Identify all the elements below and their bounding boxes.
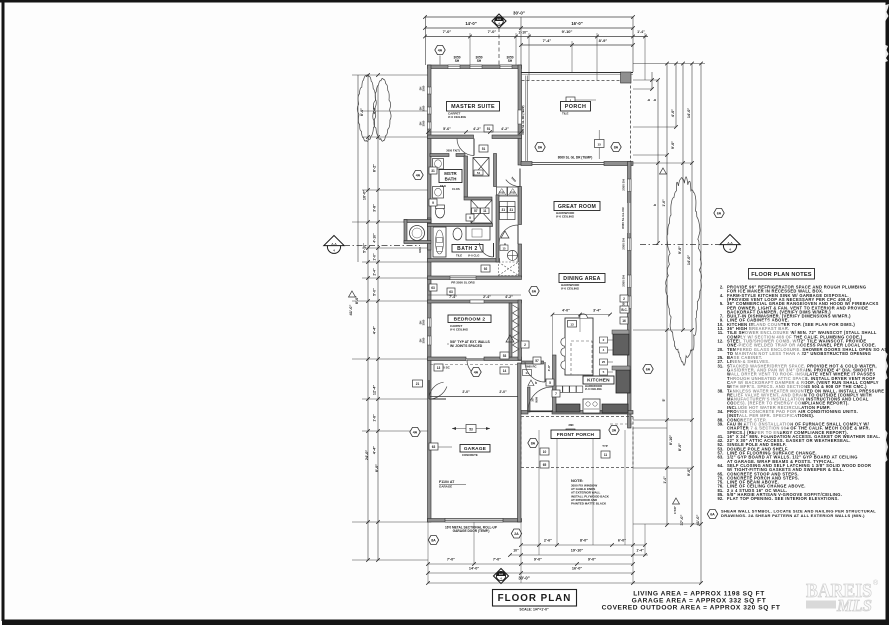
svg-text:PR 3050 SL DRS: PR 3050 SL DRS	[451, 281, 474, 285]
svg-text:30'-0": 30'-0"	[518, 576, 529, 581]
svg-text:9'-0 CEILING: 9'-0 CEILING	[585, 387, 602, 391]
svg-text:PAINTED MATTE BLACK: PAINTED MATTE BLACK	[571, 502, 607, 506]
svg-text:5'-10": 5'-10"	[363, 243, 367, 253]
svg-text:51: 51	[487, 127, 491, 131]
svg-text:A-A: A-A	[727, 241, 733, 245]
svg-text:SH: SH	[419, 87, 423, 91]
svg-text:7'-0": 7'-0"	[447, 558, 455, 562]
svg-text:FLOOR PLAN NOTES: FLOOR PLAN NOTES	[751, 272, 811, 278]
svg-text:7'-0": 7'-0"	[488, 29, 497, 34]
svg-text:8060 SL GL DR (TEMP): 8060 SL GL DR (TEMP)	[521, 105, 525, 134]
svg-text:2'-4": 2'-4"	[373, 268, 377, 276]
svg-text:63.: 63.	[718, 455, 724, 460]
svg-text:®: ®	[873, 579, 879, 587]
svg-text:13: 13	[437, 366, 441, 370]
svg-text:7'-4": 7'-4"	[543, 38, 552, 43]
svg-text:b: b	[647, 99, 651, 101]
svg-text:31.: 31.	[718, 363, 724, 368]
svg-text:TILE: TILE	[562, 112, 569, 116]
svg-text:31: 31	[501, 208, 505, 212]
svg-text:1'-6": 1'-6"	[662, 199, 666, 207]
svg-text:W/ JOINTS SPACED: W/ JOINTS SPACED	[450, 344, 483, 348]
svg-text:TILE: TILE	[440, 184, 446, 188]
svg-text:14'-0": 14'-0"	[687, 255, 691, 266]
svg-text:1'-4": 1'-4"	[663, 476, 667, 484]
svg-text:10": 10"	[513, 549, 519, 553]
svg-text:11: 11	[604, 453, 608, 457]
svg-text:7'-0": 7'-0"	[493, 558, 501, 562]
svg-text:b: b	[535, 381, 537, 385]
svg-text:SH: SH	[419, 339, 423, 343]
svg-text:SH: SH	[477, 59, 482, 63]
svg-text:5': 5'	[662, 398, 666, 401]
svg-text:6A: 6A	[532, 290, 537, 294]
svg-text:65: 65	[543, 463, 547, 467]
svg-text:14'-0": 14'-0"	[469, 567, 480, 571]
svg-text:GREAT ROOM: GREAT ROOM	[558, 204, 596, 210]
svg-text:8'-2": 8'-2"	[373, 164, 377, 172]
svg-text:8A: 8A	[538, 146, 543, 150]
svg-text:3A: 3A	[612, 429, 617, 433]
svg-text:16'-0": 16'-0"	[572, 567, 583, 571]
svg-text:1616: 1616	[418, 247, 422, 253]
svg-text:10: 10	[543, 450, 547, 454]
svg-text:1'-10": 1'-10"	[518, 31, 528, 35]
svg-text:92.: 92.	[718, 496, 724, 501]
svg-text:GARAGE: GARAGE	[464, 446, 486, 451]
svg-text:3'-8": 3'-8"	[547, 364, 551, 371]
svg-text:63: 63	[449, 290, 453, 294]
svg-text:4'-10": 4'-10"	[373, 233, 377, 243]
svg-text:11.: 11.	[718, 330, 724, 335]
svg-text:GARAGE: GARAGE	[439, 485, 452, 489]
svg-text:SH: SH	[419, 107, 423, 111]
svg-text:1'-4": 1'-4"	[637, 30, 645, 34]
svg-text:4A: 4A	[416, 174, 421, 178]
svg-text:34.: 34.	[718, 409, 724, 414]
svg-text:1'-0": 1'-0"	[373, 253, 377, 261]
svg-text:8A: 8A	[431, 539, 436, 543]
svg-text:B.C.: B.C.	[621, 308, 627, 312]
svg-text:FLAT TOP OPENING. SEE INTERIOR: FLAT TOP OPENING. SEE INTERIOR ELEVATION…	[727, 496, 839, 501]
svg-text:TILE: TILE	[456, 254, 462, 258]
svg-text:8060 SL GL DR (TEMP): 8060 SL GL DR (TEMP)	[558, 156, 593, 160]
svg-text:8'-0": 8'-0"	[678, 443, 682, 451]
svg-text:8A: 8A	[614, 146, 619, 150]
svg-text:3050 SH: 3050 SH	[622, 238, 626, 250]
svg-text:8A: 8A	[531, 442, 536, 446]
svg-text:2660 RC: 2660 RC	[525, 364, 536, 368]
svg-text:MASTER SUITE: MASTER SUITE	[451, 104, 495, 110]
svg-text:2.: 2.	[720, 285, 724, 290]
svg-text:4'-4": 4'-4"	[373, 446, 377, 454]
svg-text:14'-0": 14'-0"	[465, 21, 476, 26]
svg-text:3050 SH: 3050 SH	[622, 179, 626, 191]
svg-text:3'-4": 3'-4"	[593, 309, 601, 313]
svg-text:9'-10": 9'-10"	[562, 29, 573, 34]
svg-text:5: 5	[549, 381, 551, 385]
svg-text:b: b	[653, 204, 657, 206]
svg-text:BEDROOM 2: BEDROOM 2	[454, 316, 486, 322]
svg-text:8060 SL GL DR: 8060 SL GL DR	[621, 206, 625, 228]
svg-text:5.: 5.	[720, 301, 724, 306]
svg-text:10'-0": 10'-0"	[363, 190, 367, 201]
svg-text:8'-0": 8'-0"	[580, 539, 588, 543]
svg-text:16'-0": 16'-0"	[571, 21, 582, 26]
svg-text:9: 9	[469, 216, 471, 220]
svg-text:4.: 4.	[720, 293, 724, 298]
svg-text:4A: 4A	[438, 49, 443, 53]
svg-text:8'-0": 8'-0"	[375, 464, 379, 472]
svg-text:FRONT PORCH: FRONT PORCH	[557, 432, 595, 438]
svg-text:9: 9	[432, 201, 434, 205]
svg-text:TYP: TYP	[602, 444, 608, 448]
svg-text:SCALE: 1/4"=1'-0": SCALE: 1/4"=1'-0"	[519, 608, 549, 612]
svg-text:13: 13	[570, 323, 574, 327]
svg-text:15: 15	[502, 246, 506, 250]
svg-text:1'-8": 1'-8"	[373, 414, 377, 422]
svg-text:54: 54	[477, 171, 481, 175]
svg-text:3 5/8": 3 5/8"	[673, 505, 677, 514]
svg-text:SH: SH	[419, 321, 423, 325]
svg-text:12'-4": 12'-4"	[373, 385, 377, 396]
svg-text:6'-0": 6'-0"	[618, 539, 626, 543]
svg-text:20.: 20.	[718, 347, 724, 352]
svg-text:DRAWINGS. 2A SHEAR PATTERN AT: DRAWINGS. 2A SHEAR PATTERN AT ALL EXTERI…	[721, 513, 865, 518]
svg-text:41'-0": 41'-0"	[348, 304, 353, 315]
svg-text:NOTE:: NOTE:	[571, 478, 583, 483]
svg-text:7'-0": 7'-0"	[443, 29, 452, 34]
svg-text:BATH 2: BATH 2	[457, 246, 478, 252]
svg-text:BATH: BATH	[445, 177, 457, 182]
svg-text:8'-10": 8'-10"	[669, 435, 673, 446]
svg-text:DINING AREA: DINING AREA	[563, 276, 600, 282]
svg-text:2: 2	[524, 343, 526, 347]
svg-text:63: 63	[432, 445, 436, 449]
svg-text:N-R: N-R	[497, 19, 501, 21]
svg-text:2'-4": 2'-4"	[483, 295, 491, 299]
svg-text:9'-0": 9'-0"	[687, 468, 691, 476]
svg-text:41'-0": 41'-0"	[695, 514, 700, 525]
svg-text:2: 2	[623, 297, 625, 301]
svg-text:2'-0": 2'-0"	[462, 390, 470, 394]
svg-text:PORCH: PORCH	[565, 104, 586, 110]
svg-text:21: 21	[416, 382, 420, 386]
svg-text:4'-0": 4'-0"	[671, 109, 675, 117]
svg-text:CONCRETE: CONCRETE	[462, 453, 478, 457]
svg-text:3050 FX(T): 3050 FX(T)	[446, 149, 460, 153]
svg-text:SH: SH	[508, 59, 513, 63]
svg-text:4A: 4A	[413, 431, 418, 435]
svg-text:2030: 2030	[510, 192, 516, 195]
svg-text:GARAGE DOOR (TEMP.): GARAGE DOOR (TEMP.)	[453, 529, 490, 533]
svg-text:30'-0": 30'-0"	[513, 11, 525, 16]
svg-text:9'-0": 9'-0"	[671, 141, 675, 149]
svg-text:16: 16	[622, 319, 626, 323]
svg-text:5'-0": 5'-0"	[373, 288, 377, 296]
svg-text:57: 57	[474, 209, 478, 213]
svg-text:9'-0 CEILING: 9'-0 CEILING	[450, 328, 469, 332]
svg-text:14: 14	[503, 369, 507, 373]
svg-text:b: b	[653, 99, 657, 101]
svg-text:6A: 6A	[646, 368, 651, 372]
svg-text:7'-4": 7'-4"	[449, 295, 457, 299]
svg-text:GARAGE AREA = APPROX 332 SQ FT: GARAGE AREA = APPROX 332 SQ FT	[632, 598, 767, 605]
svg-text:5'-6": 5'-6"	[443, 127, 451, 131]
svg-text:64.: 64.	[718, 463, 724, 468]
svg-text:38D: 38D	[568, 423, 573, 427]
svg-text:57: 57	[535, 359, 539, 363]
svg-text:2030: 2030	[499, 192, 505, 195]
svg-text:19'-10": 19'-10"	[571, 549, 584, 553]
svg-text:53: 53	[469, 428, 473, 432]
svg-text:4A: 4A	[474, 371, 479, 375]
svg-text:9'-0 CEILING: 9'-0 CEILING	[448, 115, 467, 119]
svg-text:14'-0": 14'-0"	[687, 108, 691, 119]
svg-text:9'-0 CEILING: 9'-0 CEILING	[556, 215, 575, 219]
svg-text:25: 25	[602, 360, 606, 364]
svg-text:37'-0": 37'-0"	[679, 514, 684, 525]
svg-text:9'-0 CEILING: 9'-0 CEILING	[561, 287, 580, 291]
svg-text:1'-4": 1'-4"	[636, 549, 644, 553]
svg-text:31: 31	[509, 208, 513, 212]
svg-text:N-R: N-R	[499, 574, 503, 576]
svg-text:2A: 2A	[514, 532, 519, 536]
svg-text:4'-0": 4'-0"	[562, 309, 570, 313]
svg-text:SH: SH	[419, 122, 423, 126]
svg-text:6A: 6A	[717, 212, 722, 216]
svg-text:12.: 12.	[718, 338, 724, 343]
svg-text:92: 92	[484, 267, 488, 271]
svg-text:SH: SH	[455, 59, 460, 63]
svg-text:8'-0": 8'-0"	[360, 108, 364, 116]
svg-text:3'-8": 3'-8"	[373, 204, 377, 212]
svg-text:CLOS: CLOS	[452, 187, 460, 191]
svg-text:9'-0": 9'-0"	[678, 246, 682, 254]
svg-text:6A: 6A	[710, 513, 715, 517]
svg-text:9'-0": 9'-0"	[588, 558, 596, 562]
svg-text:8'-9": 8'-9"	[599, 38, 608, 43]
svg-text:53: 53	[503, 354, 507, 358]
svg-text:4'-4": 4'-4"	[373, 326, 377, 334]
svg-text:24'-0": 24'-0"	[365, 450, 369, 461]
svg-text:4'-2": 4'-2"	[501, 127, 509, 131]
svg-text:F110# AT: F110# AT	[439, 480, 455, 484]
svg-text:MLS: MLS	[836, 596, 872, 615]
svg-text:63: 63	[431, 286, 435, 290]
svg-text:LIVING AREA = APPROX 1198 SQ F: LIVING AREA = APPROX 1198 SQ FT	[633, 591, 765, 598]
svg-text:31: 31	[431, 169, 435, 173]
svg-text:9'-0": 9'-0"	[534, 558, 542, 562]
svg-text:15: 15	[597, 142, 601, 146]
svg-text:38.: 38.	[718, 388, 724, 393]
svg-text:FLOOR PLAN: FLOOR PLAN	[498, 593, 572, 604]
svg-text:2'-6": 2'-6"	[544, 539, 552, 543]
svg-text:4'-2": 4'-2"	[473, 127, 481, 131]
svg-text:2'-0": 2'-0"	[499, 390, 507, 394]
svg-text:51: 51	[482, 147, 486, 151]
svg-text:W/H: W/H	[535, 397, 539, 402]
svg-text:A-A: A-A	[331, 242, 337, 246]
svg-text:9'-0 CLG: 9'-0 CLG	[468, 254, 479, 258]
svg-text:7: 7	[555, 392, 557, 396]
svg-text:11: 11	[483, 209, 487, 213]
svg-text:39.: 39.	[718, 421, 724, 426]
svg-text:3050 SH: 3050 SH	[622, 275, 626, 287]
svg-text:COVERED OUTDOOR AREA = APPROX: COVERED OUTDOOR AREA = APPROX 320 SQ FT	[602, 605, 781, 612]
svg-text:MSTR: MSTR	[444, 171, 457, 176]
svg-text:4'-2": 4'-2"	[505, 295, 513, 299]
